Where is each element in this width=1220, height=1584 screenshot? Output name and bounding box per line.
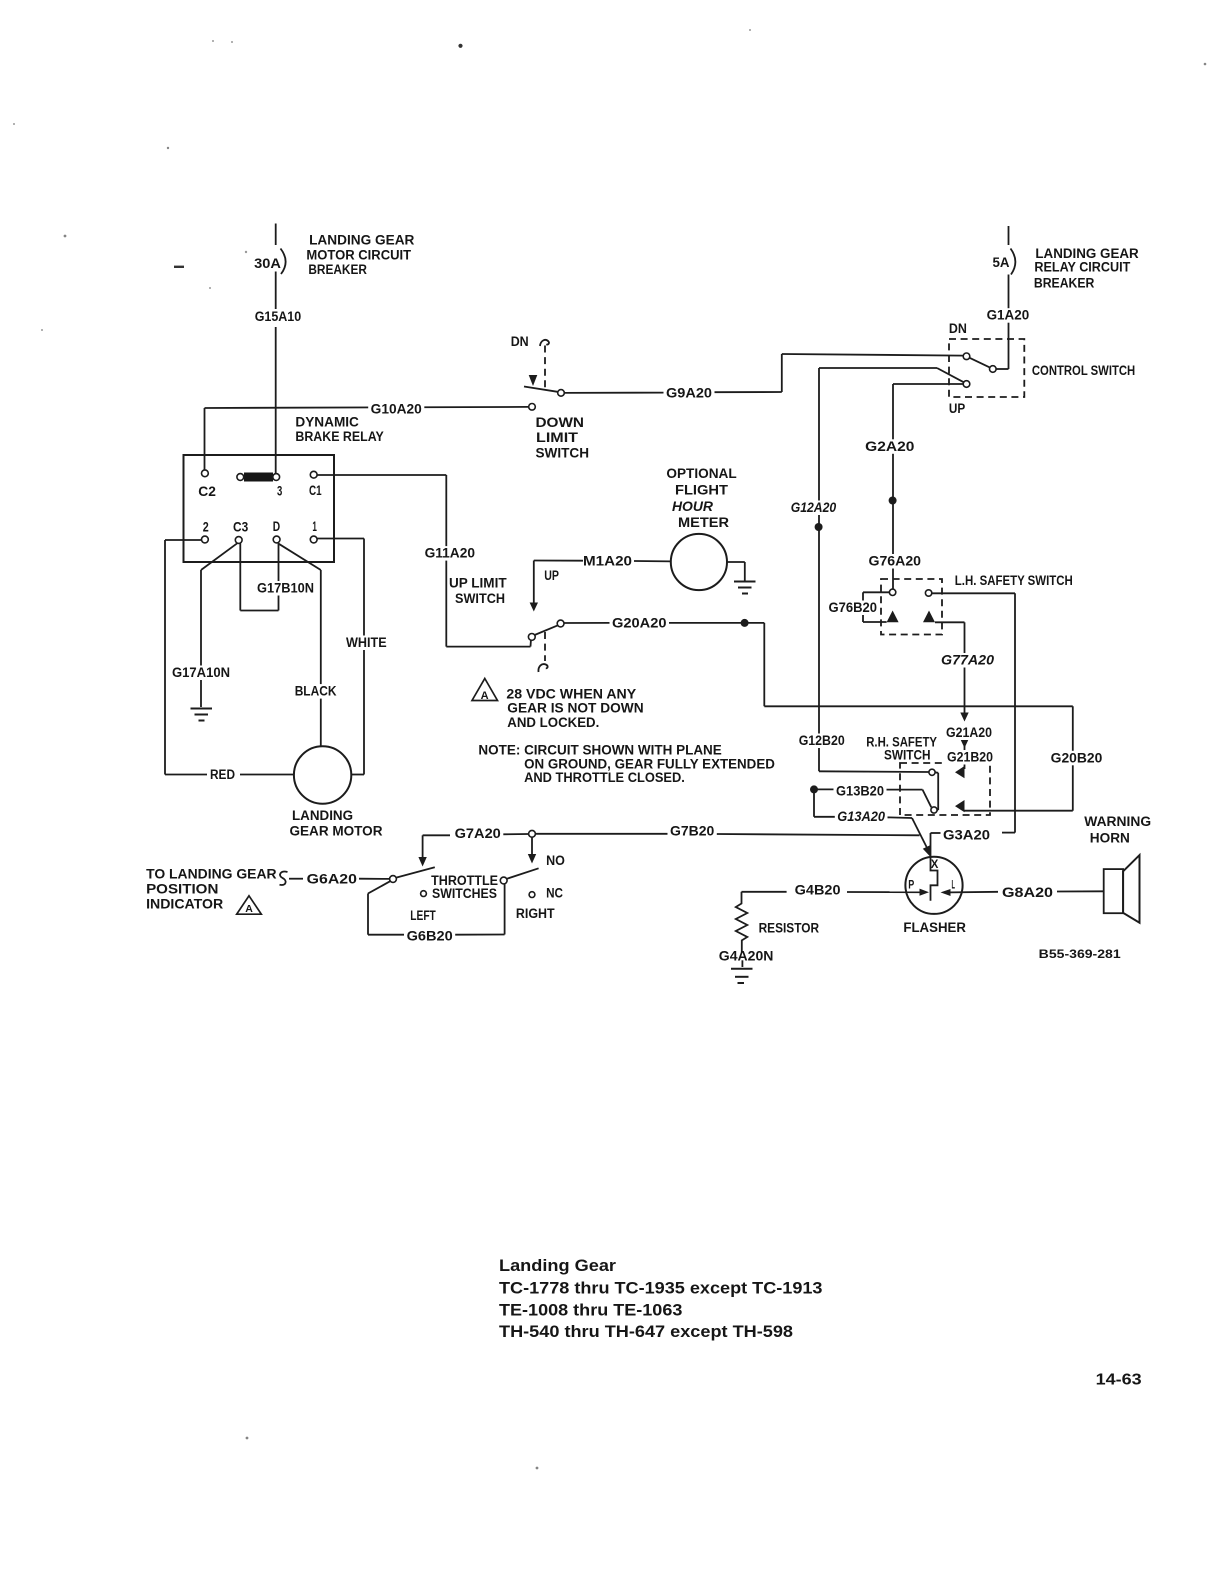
label G20A20 bbox=[610, 616, 670, 631]
svg-text:G7A20: G7A20 bbox=[455, 826, 501, 841]
svg-text:28 VDC WHEN ANY: 28 VDC WHEN ANY bbox=[506, 686, 636, 701]
label G13A20 bbox=[835, 809, 888, 824]
wire G17A10N C3 to ground bbox=[201, 543, 237, 707]
arrowhead above G21A20 bbox=[960, 713, 968, 722]
control switch S2 dashed box bbox=[949, 339, 1024, 397]
wire G7A20 arrow to left throttle switch bbox=[423, 834, 529, 859]
flasher FL1 bbox=[905, 857, 962, 914]
wire G1A20 breaker to control switch common bbox=[996, 306, 1008, 370]
wire G13B20 to RH lower contact bbox=[816, 789, 931, 807]
wire M1A20 UP arrow to hour meter bbox=[534, 561, 671, 605]
svg-text:UP: UP bbox=[544, 568, 559, 583]
hour meter M2 optional flight hour meter bbox=[671, 534, 727, 590]
junction dot on G20A20 bbox=[741, 619, 749, 627]
svg-text:G6A20: G6A20 bbox=[307, 872, 357, 887]
triangle note A 28VDC bbox=[472, 679, 498, 701]
svg-text:SWITCHES: SWITCHES bbox=[432, 886, 497, 901]
circuit breaker CB1 30A landing gear motor circuit breaker bbox=[276, 224, 286, 310]
svg-text:G10A20: G10A20 bbox=[371, 402, 422, 417]
relay pin C3 bbox=[235, 537, 242, 544]
svg-text:NOTE: CIRCUIT SHOWN WITH PLANE: NOTE: CIRCUIT SHOWN WITH PLANE bbox=[478, 742, 721, 757]
warning horn LS1 bbox=[1104, 855, 1140, 923]
label G15A10 bbox=[252, 309, 304, 324]
wire pin2 to motor RED bbox=[165, 540, 294, 775]
RH safety switch upper NO triangle bbox=[955, 766, 965, 778]
control switch UP contact bbox=[963, 381, 970, 388]
relay coil bar pin 3 bbox=[237, 474, 280, 481]
svg-text:BREAKER: BREAKER bbox=[308, 262, 367, 277]
label G76A20 bbox=[866, 554, 924, 569]
svg-text:AND THROTTLE CLOSED.: AND THROTTLE CLOSED. bbox=[524, 770, 685, 785]
svg-text:LEFT: LEFT bbox=[410, 908, 436, 923]
svg-text:UP LIMIT: UP LIMIT bbox=[449, 576, 507, 591]
svg-text:UP: UP bbox=[949, 401, 965, 416]
wire G10A20 relay C2 to down limit switch bbox=[205, 407, 529, 473]
svg-text:G13B20: G13B20 bbox=[836, 784, 884, 799]
LH safety switch right NC triangle bbox=[923, 611, 935, 623]
svg-text:G20B20: G20B20 bbox=[1051, 750, 1103, 765]
label G13B20 bbox=[834, 784, 887, 799]
svg-text:FLASHER: FLASHER bbox=[903, 920, 966, 935]
relay K1 dynamic brake relay box bbox=[184, 455, 335, 562]
svg-text:BRAKE RELAY: BRAKE RELAY bbox=[295, 429, 383, 444]
wire G77A20 G21A20 G21B20 vertical bbox=[935, 622, 965, 769]
svg-text:G77A20: G77A20 bbox=[941, 653, 995, 668]
label BLACK bbox=[292, 684, 339, 699]
svg-text:1: 1 bbox=[312, 519, 317, 534]
svg-text:14-63: 14-63 bbox=[1096, 1372, 1142, 1389]
svg-text:GEAR MOTOR: GEAR MOTOR bbox=[290, 824, 383, 839]
svg-text:C3: C3 bbox=[233, 520, 248, 535]
label G10A20 bbox=[368, 402, 424, 417]
wire G20A20 from up limit switch bbox=[564, 623, 1073, 706]
svg-text:G11A20: G11A20 bbox=[425, 546, 475, 561]
wire BLACK from D to motor bbox=[278, 543, 321, 746]
wire G17B10N jumper C3 to D bbox=[240, 544, 278, 611]
svg-text:G15A10: G15A10 bbox=[255, 309, 302, 324]
svg-text:G76B20: G76B20 bbox=[829, 600, 878, 615]
LH safety switch dashed box bbox=[881, 579, 942, 635]
label G3A20 bbox=[941, 828, 993, 843]
svg-text:G13A20: G13A20 bbox=[837, 809, 885, 824]
arrowhead above G21B20 bbox=[960, 739, 968, 748]
svg-text:P: P bbox=[908, 880, 914, 892]
svg-text:C1: C1 bbox=[309, 483, 322, 498]
svg-text:RESISTOR: RESISTOR bbox=[759, 920, 820, 935]
LH safety switch left NC triangle bbox=[887, 611, 899, 623]
svg-text:30A: 30A bbox=[254, 256, 281, 271]
ground for G17A10N bbox=[191, 709, 213, 721]
svg-text:MOTOR CIRCUIT: MOTOR CIRCUIT bbox=[306, 248, 411, 263]
throttle switch right bbox=[500, 868, 538, 897]
wire G6B20 connecting throttle switches bbox=[368, 884, 505, 935]
RH safety switch upper contact bbox=[929, 769, 935, 775]
arrowhead into flasher X bbox=[923, 845, 931, 858]
label G1A20 bbox=[984, 308, 1032, 323]
label G11A20 bbox=[422, 546, 477, 561]
svg-text:G4A20N: G4A20N bbox=[719, 948, 774, 963]
flasher P arrowhead bbox=[920, 889, 930, 896]
svg-text:G6B20: G6B20 bbox=[407, 929, 453, 944]
label G17B10N bbox=[255, 581, 317, 596]
relay pin 2 bbox=[202, 536, 209, 543]
wire G12B20 into RH safety switch upper contact bbox=[819, 770, 929, 773]
resistor R1 bbox=[736, 892, 748, 967]
svg-text:SWITCH: SWITCH bbox=[884, 747, 931, 762]
wire G9A20 to control switch bbox=[564, 354, 963, 393]
svg-text:INDICATOR: INDICATOR bbox=[146, 897, 223, 912]
svg-text:OPTIONAL: OPTIONAL bbox=[666, 466, 736, 481]
label G9A20 bbox=[664, 385, 715, 400]
svg-text:G12A20: G12A20 bbox=[791, 500, 837, 515]
svg-text:M1A20: M1A20 bbox=[583, 554, 632, 569]
flasher L arrowhead bbox=[941, 889, 951, 896]
svg-text:B55-369-281: B55-369-281 bbox=[1039, 949, 1122, 961]
wire G6A20 to position indicator bbox=[280, 872, 390, 885]
svg-text:X: X bbox=[931, 857, 939, 871]
wire hour meter to ground bbox=[727, 562, 745, 581]
svg-text:A: A bbox=[481, 690, 489, 702]
svg-text:G21A20: G21A20 bbox=[946, 725, 992, 740]
relay pin C2 bbox=[202, 470, 209, 477]
svg-text:D: D bbox=[273, 519, 281, 534]
svg-text:C2: C2 bbox=[198, 484, 216, 499]
LH safety switch right contact bbox=[925, 590, 931, 596]
relay pin D bbox=[273, 536, 280, 543]
wire G13A20 to flasher X bbox=[814, 789, 929, 851]
throttle switch right NO junction bbox=[529, 830, 536, 837]
control switch common contact bbox=[990, 366, 997, 373]
svg-text:L.H. SAFETY SWITCH: L.H. SAFETY SWITCH bbox=[955, 573, 1073, 588]
ground for hour meter bbox=[734, 582, 756, 594]
control switch DN contact bbox=[963, 353, 970, 360]
wire G4B20 resistor to flasher P bbox=[742, 891, 920, 893]
throttle switch left bbox=[368, 867, 435, 896]
svg-text:LANDING GEAR: LANDING GEAR bbox=[309, 233, 415, 248]
svg-text:GEAR IS NOT DOWN: GEAR IS NOT DOWN bbox=[507, 701, 643, 716]
svg-text:3: 3 bbox=[277, 484, 282, 499]
svg-text:G1A20: G1A20 bbox=[987, 308, 1030, 323]
wire G12A20 from UP contact down to G12B20 bbox=[819, 368, 964, 771]
wire G15A10 vertical to relay coil bbox=[275, 327, 277, 474]
wire LH right contact to G3A20 vertical bbox=[932, 593, 1015, 832]
label G8A20 bbox=[1000, 885, 1056, 900]
label G4B20 bbox=[792, 883, 843, 898]
svg-text:METER: METER bbox=[678, 515, 729, 530]
svg-text:G2A20: G2A20 bbox=[865, 439, 914, 454]
junction dot on G2A20 bbox=[889, 497, 897, 505]
motor M1 landing gear motor bbox=[294, 746, 351, 803]
underline G21B20 bbox=[946, 763, 974, 765]
label G21A20 bbox=[944, 725, 995, 740]
svg-text:TE-1008 thru TE-1063: TE-1008 thru TE-1063 bbox=[499, 1301, 682, 1320]
relay pin 1 bbox=[310, 536, 317, 543]
svg-text:5A: 5A bbox=[993, 255, 1010, 270]
down limit switch S1 bbox=[524, 340, 564, 410]
svg-text:WARNING: WARNING bbox=[1084, 814, 1151, 829]
label G7A20 bbox=[452, 826, 503, 841]
circuit breaker CB2 5A landing gear relay circuit breaker bbox=[1009, 226, 1016, 306]
wire G20B20 down to RH lower triangle bbox=[965, 706, 1073, 810]
svg-text:NO: NO bbox=[546, 853, 565, 868]
triangle note A position indicator bbox=[237, 896, 262, 914]
relay pin C1 bbox=[310, 471, 317, 478]
svg-text:L: L bbox=[952, 880, 956, 892]
svg-text:LIMIT: LIMIT bbox=[536, 430, 579, 445]
svg-text:G21B20: G21B20 bbox=[947, 750, 993, 765]
svg-text:G3A20: G3A20 bbox=[943, 828, 990, 843]
svg-text:CONTROL SWITCH: CONTROL SWITCH bbox=[1032, 363, 1135, 378]
RH safety switch dashed box bbox=[900, 763, 990, 815]
label G77A20 bbox=[939, 653, 997, 668]
label G12A20 bbox=[788, 500, 839, 515]
svg-text:WHITE: WHITE bbox=[346, 635, 387, 650]
wire G11A20 from C1 to up limit switch bbox=[317, 475, 531, 647]
svg-text:G4B20: G4B20 bbox=[795, 883, 841, 898]
label G2A20 bbox=[863, 439, 917, 454]
arrowhead G7A20 bbox=[418, 857, 426, 867]
label G20B20 bbox=[1048, 750, 1105, 765]
svg-text:DYNAMIC: DYNAMIC bbox=[295, 415, 359, 430]
label G7B20 bbox=[668, 824, 717, 839]
svg-text:G17B10N: G17B10N bbox=[257, 581, 314, 596]
wire G76B20 bracket bbox=[863, 592, 889, 622]
svg-text:AND LOCKED.: AND LOCKED. bbox=[507, 715, 599, 730]
svg-text:G20A20: G20A20 bbox=[612, 616, 667, 631]
svg-text:G17A10N: G17A10N bbox=[172, 665, 230, 680]
svg-text:LANDING: LANDING bbox=[292, 808, 353, 823]
wire G7B20 NO to flasher diagonal bbox=[535, 834, 919, 836]
wire G3A20 tick and flasher internal step bbox=[931, 833, 1016, 901]
label WHITE bbox=[344, 635, 390, 650]
svg-text:G7B20: G7B20 bbox=[670, 824, 714, 839]
svg-text:A: A bbox=[245, 903, 253, 915]
junction dot on G12A20 bbox=[815, 523, 823, 531]
svg-text:Landing Gear: Landing Gear bbox=[499, 1256, 616, 1275]
svg-text:NC: NC bbox=[546, 885, 563, 900]
arrowhead NO to right throttle switch bbox=[528, 837, 536, 863]
svg-text:DOWN: DOWN bbox=[536, 415, 585, 430]
up limit switch S3 bbox=[528, 620, 564, 672]
svg-text:DN: DN bbox=[949, 321, 967, 336]
svg-text:HOUR: HOUR bbox=[672, 499, 713, 514]
wire G13B20 junction dot bbox=[810, 785, 818, 793]
svg-text:POSITION: POSITION bbox=[146, 882, 218, 897]
svg-text:SWITCH: SWITCH bbox=[536, 446, 590, 461]
svg-text:2: 2 bbox=[203, 520, 209, 535]
RH safety switch lower contact bbox=[931, 807, 937, 813]
label G21B20 bbox=[945, 750, 996, 765]
wire UP contact to G2A20 vertical bbox=[893, 384, 963, 589]
svg-text:SWITCH: SWITCH bbox=[455, 591, 505, 606]
wire G8A20 flasher L to warning horn bbox=[951, 891, 1104, 892]
svg-text:BREAKER: BREAKER bbox=[1034, 275, 1095, 290]
label G17A10N bbox=[170, 665, 233, 680]
svg-text:TC-1778 thru TC-1935 except TC: TC-1778 thru TC-1935 except TC-1913 bbox=[499, 1279, 823, 1298]
svg-text:G76A20: G76A20 bbox=[869, 554, 922, 569]
label G6B20 bbox=[404, 929, 455, 944]
svg-text:G8A20: G8A20 bbox=[1002, 885, 1053, 900]
svg-text:TH-540 thru TH-647 except TH-5: TH-540 thru TH-647 except TH-598 bbox=[499, 1322, 793, 1341]
RH safety switch common bus bbox=[935, 772, 938, 810]
label G76B20 bbox=[826, 600, 880, 615]
svg-text:RIGHT: RIGHT bbox=[516, 906, 555, 921]
svg-text:TO LANDING GEAR: TO LANDING GEAR bbox=[146, 867, 277, 882]
arrowhead UP actuate bbox=[530, 603, 538, 612]
svg-text:G9A20: G9A20 bbox=[666, 385, 712, 400]
svg-text:BLACK: BLACK bbox=[295, 684, 337, 699]
svg-text:RED: RED bbox=[210, 767, 235, 782]
svg-text:HORN: HORN bbox=[1090, 831, 1130, 846]
control switch blade bbox=[969, 358, 990, 368]
RH safety switch lower NO triangle bbox=[955, 800, 965, 812]
svg-text:FLIGHT: FLIGHT bbox=[675, 483, 729, 498]
svg-text:DN: DN bbox=[511, 334, 529, 349]
wire WHITE from pin 1 to motor bbox=[317, 539, 364, 775]
label G12B20 bbox=[796, 733, 847, 748]
ground for G4A20N bbox=[731, 969, 753, 983]
svg-text:RELAY CIRCUIT: RELAY CIRCUIT bbox=[1034, 260, 1131, 275]
svg-text:G12B20: G12B20 bbox=[799, 733, 845, 748]
LH safety switch left contact bbox=[889, 589, 895, 595]
